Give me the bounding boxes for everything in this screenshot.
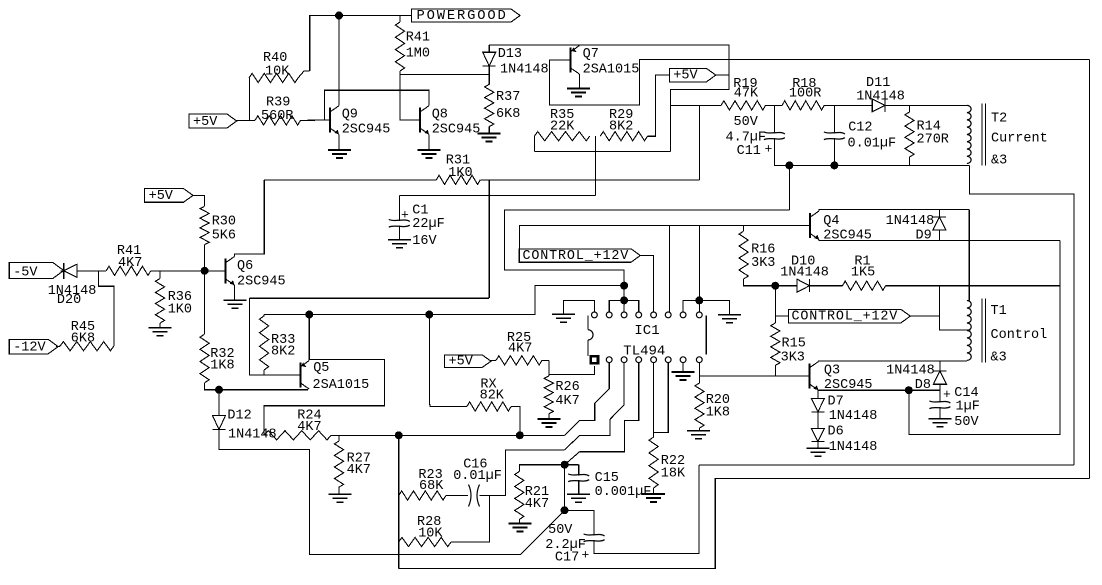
ground below C14 bbox=[928, 418, 951, 420]
resistor RX 82K bbox=[467, 402, 511, 411]
wire T1 center tap from R1 wire bbox=[940, 286, 971, 330]
ground below Q8 bbox=[418, 149, 441, 151]
svg-text:+5V: +5V bbox=[673, 69, 698, 84]
svg-text:100R: 100R bbox=[789, 87, 821, 102]
wire right mid vertical bbox=[909, 241, 1060, 435]
wire R33 top corner bbox=[263, 315, 265, 316]
svg-text:18K: 18K bbox=[661, 466, 686, 481]
resistor R45 6K8 bbox=[60, 342, 114, 351]
svg-text:6K8: 6K8 bbox=[71, 332, 95, 347]
wire Q9 emitter down bbox=[338, 134, 340, 149]
wire R25 right to node bbox=[542, 359, 549, 361]
resistor R41 4K7 bbox=[106, 266, 151, 275]
ground left of IC top bbox=[552, 313, 575, 315]
resistor R36 1K0 bbox=[155, 279, 164, 324]
wire dot to D10 bbox=[775, 285, 797, 287]
svg-text:1N4148: 1N4148 bbox=[500, 63, 549, 78]
wire R16 bottom bbox=[744, 279, 776, 286]
wire R41 bottom to Q8 base bbox=[400, 71, 420, 120]
wire Q4 collector to box bbox=[819, 210, 969, 211]
wire node to R45 bbox=[99, 271, 114, 346]
junction Q3 emitter node bbox=[905, 386, 913, 394]
wire Q6 emitter bbox=[234, 285, 236, 299]
resistor R18 100R bbox=[782, 101, 824, 110]
wire R41 top bbox=[399, 16, 401, 23]
svg-text:Q4: Q4 bbox=[823, 214, 839, 229]
svg-text:3K3: 3K3 bbox=[781, 350, 805, 365]
wire D13 top riser bbox=[488, 45, 490, 52]
wire C17 top lead bbox=[565, 510, 595, 535]
wire bottom long bbox=[399, 479, 1090, 569]
ground below Q6 bbox=[223, 299, 246, 301]
diode D9 bbox=[933, 217, 946, 230]
wire pin6 to R22 node bbox=[654, 363, 669, 433]
wire Q3 collector to T1 bbox=[818, 360, 967, 363]
wire RX right drop bbox=[511, 407, 520, 436]
wire pin16 riser bbox=[698, 300, 700, 311]
wire flag left loop / Q4 base bus bbox=[519, 225, 810, 249]
resistor R35 22K bbox=[534, 132, 589, 141]
wire R35 left drop bbox=[533, 136, 535, 151]
svg-text:D9: D9 bbox=[916, 228, 932, 243]
svg-text:R37: R37 bbox=[496, 90, 520, 105]
wire R27 to ground bbox=[338, 487, 340, 494]
wire box to T1 top bbox=[968, 210, 970, 301]
svg-text:4K7: 4K7 bbox=[297, 420, 321, 435]
svg-text:2SA1015: 2SA1015 bbox=[583, 63, 640, 78]
wire R28 right riser bbox=[451, 496, 489, 543]
wire C11 bottom bbox=[774, 138, 969, 165]
wire POWERGOOD net top bbox=[310, 16, 412, 72]
svg-text:16V: 16V bbox=[412, 234, 437, 249]
diode D20 (1N4148) bbox=[64, 264, 77, 277]
ground below C1 bbox=[388, 239, 411, 241]
wire Q4 emitter to box bbox=[819, 239, 1060, 242]
transistor Q7 bbox=[570, 47, 572, 72]
wire R41 node to D13 bbox=[400, 73, 489, 75]
resistor R23 68K bbox=[399, 491, 446, 500]
resistor R26 4K7 bbox=[544, 376, 553, 414]
wire D9 top lead bbox=[938, 210, 940, 217]
wire Q5 left loop bbox=[249, 298, 300, 375]
wire flag2 tip wire bbox=[911, 315, 940, 317]
svg-text:R30: R30 bbox=[212, 215, 236, 230]
svg-text:+5V: +5V bbox=[193, 115, 218, 130]
wire control bus to top bus bbox=[623, 286, 625, 301]
resistor R24 4K7 bbox=[264, 431, 331, 440]
wire T2 bottom to right frame bbox=[970, 165, 1075, 464]
svg-text:+5V: +5V bbox=[449, 355, 474, 370]
power flag -5V bbox=[9, 263, 64, 279]
resistor R33 8K2 bbox=[260, 316, 269, 370]
junction R33 wire at Q5 emitter bbox=[305, 311, 313, 319]
wire Q3 emitter row bbox=[818, 389, 940, 391]
power flag +5V (R30) bbox=[145, 189, 193, 203]
svg-text:IC1: IC1 bbox=[634, 323, 659, 339]
resistor R40 bbox=[249, 73, 298, 82]
svg-text:&3: &3 bbox=[991, 154, 1007, 169]
svg-text:0.01µF: 0.01µF bbox=[848, 137, 897, 152]
junction D12 node bbox=[215, 386, 223, 394]
svg-text:5K6: 5K6 bbox=[212, 229, 236, 244]
capacitor C12 0.01uF bbox=[824, 132, 845, 134]
transformer T1 bbox=[967, 301, 971, 361]
svg-text:POWERGOOD: POWERGOOD bbox=[417, 9, 508, 24]
transistor Q5 bbox=[300, 362, 302, 387]
capacitor C16 0.01uF bbox=[469, 485, 472, 507]
svg-text:TL494: TL494 bbox=[623, 344, 665, 360]
svg-text:+5V: +5V bbox=[149, 189, 174, 204]
diode D10 bbox=[797, 279, 810, 292]
wire R16 top bbox=[743, 225, 745, 231]
junction R16/D10/R15 bbox=[771, 282, 779, 290]
wire R22 to ground bbox=[653, 488, 655, 493]
resistor R14 270R bbox=[905, 112, 914, 157]
transistor Q6 bbox=[225, 258, 227, 283]
wire pin2 staircase bbox=[565, 363, 610, 436]
wire pin13 riser to flag bbox=[653, 256, 655, 311]
resistor R16 3K3 bbox=[739, 231, 748, 279]
junction C15 node bbox=[561, 461, 569, 469]
wire R40 left drop bbox=[249, 78, 251, 120]
svg-text:CONTROL_+12V: CONTROL_+12V bbox=[523, 249, 630, 264]
resistor R29 8K2 bbox=[600, 132, 647, 141]
wire R26 to ground bbox=[548, 414, 550, 419]
net flag CONTROL_+12V (right) bbox=[789, 309, 911, 322]
wire Q5 box bbox=[264, 360, 384, 436]
wire R19 left riser bbox=[669, 105, 671, 151]
wire top bus pins 10-12 bbox=[609, 300, 639, 311]
svg-text:4K7: 4K7 bbox=[347, 463, 371, 478]
wire C17 bottom route bbox=[594, 465, 699, 554]
wire D11 to T2 bbox=[885, 104, 967, 106]
wire D6 to ground bbox=[817, 442, 819, 448]
wire pin3 staircase bbox=[565, 363, 625, 450]
wire +5V tip to frame bbox=[716, 74, 729, 76]
svg-text:0.001µF: 0.001µF bbox=[595, 485, 652, 500]
capacitor C15 0.001uF bbox=[568, 474, 589, 476]
wire R14 bottom bbox=[909, 157, 911, 165]
wire x489 riser bbox=[488, 180, 490, 298]
wire R23 to C16 bbox=[446, 495, 468, 497]
wire R21 to ground bbox=[518, 519, 520, 522]
wire control net loop bbox=[504, 210, 789, 286]
ground below R20 bbox=[687, 430, 710, 432]
ground below pin7 bbox=[672, 371, 695, 373]
resistor R22 18K bbox=[649, 437, 658, 488]
junction top bus bbox=[620, 296, 628, 304]
junction control bus bbox=[620, 282, 628, 290]
svg-text:1K5: 1K5 bbox=[851, 265, 875, 280]
resistor R27 4K7 bbox=[334, 441, 343, 487]
wire pin7 to ground bbox=[682, 363, 684, 372]
transformer T2 bbox=[967, 105, 971, 163]
net flag CONTROL_+12V (left) bbox=[519, 249, 640, 262]
diode D6 bbox=[811, 429, 824, 442]
capacitor C11 4.7uF 50V bbox=[764, 132, 785, 134]
ground below Q7 bbox=[567, 88, 590, 90]
wire Q3 base wire bbox=[699, 375, 809, 377]
diode D8 bbox=[933, 371, 946, 384]
wire R29 right to +5V riser bbox=[648, 75, 670, 136]
svg-text:0.01µF: 0.01µF bbox=[453, 469, 502, 484]
svg-text:Q6: Q6 bbox=[237, 259, 253, 274]
power flag +5V (near Q7) bbox=[669, 68, 716, 81]
wire R31 left bbox=[264, 179, 436, 181]
svg-text:C17: C17 bbox=[555, 550, 579, 565]
wire R27 top bbox=[338, 435, 340, 441]
svg-text:-12V: -12V bbox=[13, 341, 46, 356]
wire +5V to R30 bbox=[192, 195, 204, 206]
diode D13 bbox=[483, 52, 496, 66]
svg-text:50V: 50V bbox=[734, 115, 759, 130]
wire R32 bottom to dot bbox=[205, 383, 219, 390]
svg-text:D7: D7 bbox=[828, 395, 844, 410]
svg-text:+: + bbox=[401, 208, 409, 223]
wire R20 to ground bbox=[699, 428, 701, 430]
svg-text:10K: 10K bbox=[418, 526, 443, 541]
capacitor C14 1uF 50V bbox=[929, 401, 950, 403]
wire pin14 riser bbox=[668, 225, 670, 311]
wire R23 riser bbox=[398, 435, 400, 568]
wire pin15-16 bus bbox=[683, 300, 699, 311]
svg-text:Q9: Q9 bbox=[342, 108, 358, 123]
wire R26 drop bbox=[548, 360, 550, 376]
wire D8 bottom riser bbox=[939, 384, 941, 390]
svg-text:CONTROL_+12V: CONTROL_+12V bbox=[792, 310, 899, 325]
transistor Q9 bbox=[329, 108, 331, 133]
svg-text:R26: R26 bbox=[555, 380, 579, 395]
wire R24 to dot bbox=[331, 434, 399, 436]
svg-text:4K7: 4K7 bbox=[508, 341, 532, 356]
wire D10 to R1 bbox=[810, 285, 843, 287]
wire C12 riser bbox=[833, 105, 835, 133]
wire R19-C11 node bbox=[766, 104, 783, 106]
junction on POWERGOOD wire bbox=[335, 12, 343, 20]
wire R30 to node bbox=[204, 245, 206, 271]
wire C1 riser bbox=[398, 195, 400, 221]
ground below R26 bbox=[537, 418, 560, 420]
svg-text:1K0: 1K0 bbox=[448, 166, 472, 181]
resistor R39 bbox=[255, 116, 301, 125]
wire pin4 staircase bbox=[565, 363, 639, 465]
ground below R21 bbox=[508, 523, 531, 525]
transistor Q3 bbox=[809, 363, 811, 388]
wire top net D13 to frame right bbox=[489, 45, 729, 152]
junction right top bus bbox=[695, 296, 703, 304]
wire -5V to D20 bbox=[61, 270, 64, 272]
svg-text:50V: 50V bbox=[548, 523, 573, 538]
transistor Q4 bbox=[809, 213, 811, 238]
wire D12 bottom route bbox=[219, 430, 565, 555]
resistor R1 1K5 bbox=[843, 281, 886, 290]
svg-text:T2: T2 bbox=[991, 111, 1007, 126]
svg-text:-5V: -5V bbox=[13, 265, 38, 280]
resistor R19 47K bbox=[721, 101, 766, 110]
svg-text:22K: 22K bbox=[550, 120, 575, 135]
wire +5V to R25 bbox=[490, 359, 496, 361]
wire R39 to Q9 base bbox=[301, 119, 331, 121]
wire right bus to ground bbox=[699, 300, 729, 314]
svg-text:1K8: 1K8 bbox=[706, 405, 730, 420]
ground below R27 bbox=[329, 493, 352, 495]
wire Q7 emitter bbox=[579, 44, 581, 47]
svg-text:1µF: 1µF bbox=[956, 399, 980, 414]
wire Q7 base left bbox=[549, 60, 1089, 106]
wire flag tip to pin13 bbox=[640, 255, 653, 258]
svg-text:6K8: 6K8 bbox=[496, 107, 520, 122]
wire D7-D6 link bbox=[817, 412, 819, 429]
wire R33 bottom bbox=[263, 370, 265, 375]
wire RX riser from R33 wire bbox=[429, 315, 467, 407]
net flag POWERGOOD bbox=[412, 9, 521, 22]
diode D7 bbox=[811, 399, 824, 412]
svg-text:D8: D8 bbox=[915, 378, 931, 393]
resistor R41 1M0 bbox=[395, 22, 404, 71]
svg-text:50V: 50V bbox=[954, 415, 979, 430]
wire pin16 riser up bbox=[698, 225, 700, 300]
wire Q8 collector to Q9 base loop bbox=[324, 90, 429, 120]
wire flag2 left bbox=[775, 315, 788, 317]
resistor R31 1K0 bbox=[436, 175, 480, 184]
wire Q5 emitter riser bbox=[308, 315, 310, 361]
wire D13 cathode to R37 bbox=[488, 66, 490, 84]
wire pin9 top to ground bbox=[564, 300, 595, 313]
resistor R15 3K3 bbox=[771, 323, 780, 365]
wire pin5 to R22 bbox=[653, 363, 655, 437]
diode D12 bbox=[213, 416, 226, 430]
diode D11 bbox=[872, 99, 885, 112]
wire D8 top lead bbox=[939, 361, 941, 371]
svg-text:22µF: 22µF bbox=[412, 217, 444, 232]
svg-text:560R: 560R bbox=[261, 109, 293, 124]
ground below Q9 bbox=[328, 149, 351, 151]
wire branch to C1 wire bbox=[594, 152, 596, 196]
svg-text:2SC945: 2SC945 bbox=[237, 275, 286, 290]
svg-text:D6: D6 bbox=[828, 425, 844, 440]
svg-text:C11: C11 bbox=[737, 144, 761, 159]
svg-text:C12: C12 bbox=[848, 121, 872, 136]
wire main bottom bus bbox=[399, 434, 565, 436]
wire R15 bottom bbox=[774, 365, 776, 376]
wire pin8 down / Q3 base net bbox=[698, 363, 700, 383]
wire R36 drop bbox=[159, 271, 161, 279]
wire R15 riser bbox=[774, 286, 776, 323]
ground below R37 bbox=[478, 133, 501, 135]
wire right frame outer bbox=[1089, 60, 1091, 479]
wire R40 right to POWERGOOD riser bbox=[298, 71, 310, 78]
svg-text:2SC945: 2SC945 bbox=[432, 122, 481, 137]
svg-text:&3: &3 bbox=[991, 350, 1007, 365]
wire q6row to Q5 box bbox=[249, 297, 489, 299]
svg-text:1K8: 1K8 bbox=[210, 359, 234, 374]
ground right of IC top bbox=[718, 314, 741, 316]
svg-text:1N4148: 1N4148 bbox=[856, 89, 905, 104]
wire -12V to R45 bbox=[56, 345, 60, 347]
wire node down to R32 bbox=[204, 271, 206, 334]
power flag +5V (top left) bbox=[189, 114, 237, 128]
wire +12V drop right of R19 bbox=[699, 105, 701, 179]
svg-text:D20: D20 bbox=[57, 293, 81, 308]
wire D9 bottom lead bbox=[938, 230, 940, 241]
resistor R25 4K7 bbox=[496, 356, 542, 365]
svg-text:82K: 82K bbox=[480, 389, 505, 404]
svg-text:T1: T1 bbox=[991, 304, 1007, 319]
wire R19 lead bbox=[670, 104, 721, 106]
wire R37 to ground bbox=[488, 127, 490, 133]
capacitor C17 2.2uF 50V bbox=[584, 534, 605, 536]
wire C14 bottom lead bbox=[939, 407, 941, 418]
svg-text:Q8: Q8 bbox=[432, 108, 448, 123]
svg-text:47K: 47K bbox=[734, 87, 759, 102]
power flag -12V bbox=[9, 339, 58, 353]
wire R14 top bbox=[909, 105, 911, 112]
wire D7 top lead bbox=[817, 390, 819, 398]
svg-text:8K2: 8K2 bbox=[609, 120, 633, 135]
junction C17 node bbox=[561, 506, 569, 514]
wire Q6 collector riser bbox=[235, 180, 265, 257]
wire R36 to ground bbox=[159, 323, 161, 327]
svg-text:68K: 68K bbox=[419, 479, 444, 494]
svg-text:4K7: 4K7 bbox=[555, 394, 579, 409]
wire C1 net horizontal bbox=[399, 194, 595, 196]
wire Q7 collector down bbox=[579, 74, 581, 88]
svg-text:1N4148: 1N4148 bbox=[829, 440, 878, 455]
wire Q9 collector riser bbox=[338, 16, 340, 106]
junction C12 bottom wire bbox=[830, 161, 838, 169]
svg-text:D13: D13 bbox=[498, 47, 522, 62]
svg-text:R41: R41 bbox=[406, 31, 430, 46]
wire D20 to R41 node bbox=[77, 270, 106, 272]
wire mid frame bbox=[699, 464, 1074, 466]
junction RX node bbox=[516, 431, 524, 439]
wire pin11 riser bbox=[623, 300, 625, 311]
wire R31 right bbox=[480, 179, 699, 181]
svg-text:Current: Current bbox=[991, 132, 1048, 147]
wire R41b to node bbox=[151, 270, 226, 272]
wire C15 lead bbox=[578, 465, 580, 476]
wire Q8 emitter down bbox=[428, 134, 430, 149]
wire C1 bottom bbox=[398, 226, 400, 240]
svg-text:2SC945: 2SC945 bbox=[342, 122, 391, 137]
wire dot to D12 bbox=[218, 390, 220, 416]
capacitor C1 22uF 16V bbox=[389, 219, 410, 221]
resistor R21 4K7 bbox=[515, 472, 524, 520]
svg-text:1K0: 1K0 bbox=[168, 302, 192, 317]
wire +5V to R39 row bbox=[236, 119, 255, 121]
wire C16 right bbox=[480, 450, 565, 496]
power flag +5V (R25) bbox=[445, 355, 491, 368]
op-amp IC1 TL494 bbox=[592, 312, 598, 318]
wire C14 top lead bbox=[939, 390, 941, 402]
junction Q6 base node bbox=[201, 267, 209, 275]
wire R21 top bbox=[519, 465, 578, 472]
wire C11 riser bbox=[773, 105, 775, 133]
svg-text:+: + bbox=[943, 387, 951, 402]
wire dot to Q5 collector bbox=[219, 389, 308, 391]
ground below C15 bbox=[567, 493, 590, 495]
svg-text:3K3: 3K3 bbox=[751, 256, 775, 271]
wire +5V net horizontal bbox=[534, 151, 670, 153]
svg-text:Q7: Q7 bbox=[583, 47, 599, 62]
resistor R37 6K8 bbox=[485, 84, 494, 126]
wire riser to C11 node bbox=[788, 165, 790, 210]
svg-text:D12: D12 bbox=[227, 409, 251, 424]
transistor Q8 bbox=[419, 108, 421, 133]
wire pin1 to R25 node bbox=[549, 366, 594, 375]
wire R1 right long bbox=[886, 285, 1061, 287]
resistor R30 5K6 bbox=[200, 206, 209, 244]
